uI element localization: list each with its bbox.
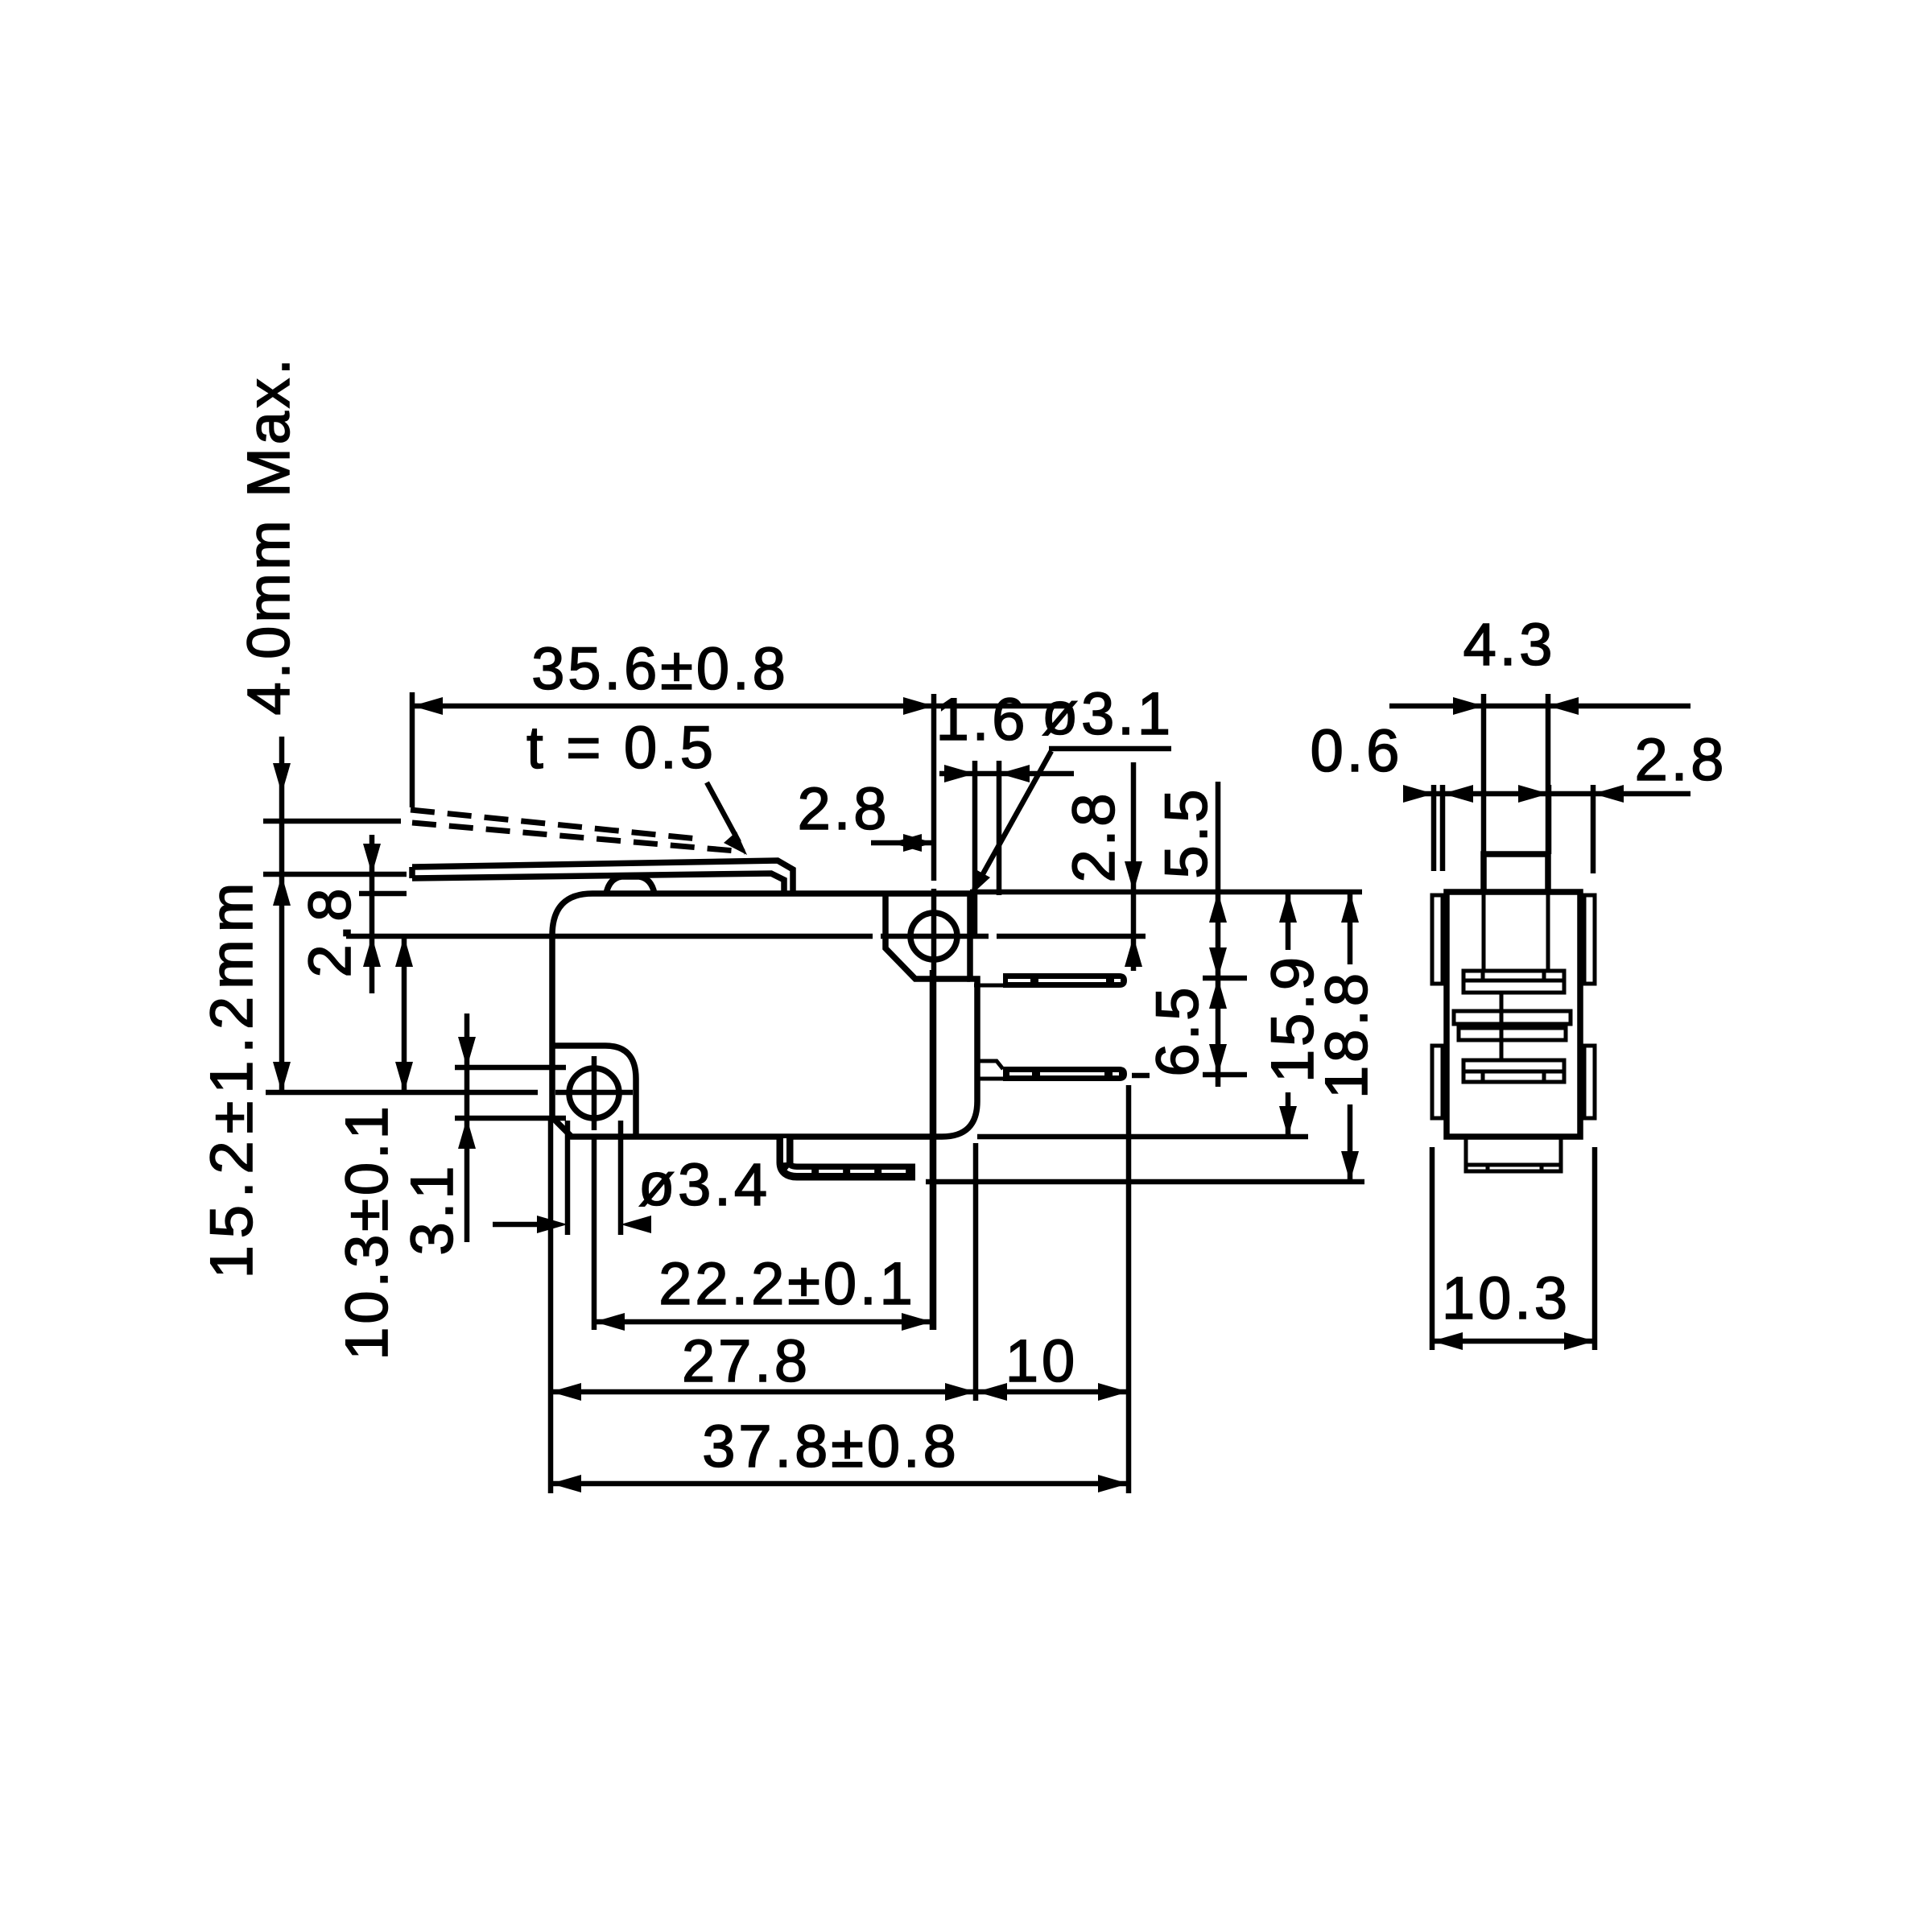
dim column 10.3±0.1: [402, 936, 407, 1092]
terminal NC (middle right): [977, 1061, 1003, 1069]
H2 vertical centerline: [931, 694, 937, 1330]
left dim column 2.8: [369, 835, 375, 993]
svg-text:6.5: 6.5: [1144, 985, 1211, 1077]
svg-text:37.8±0.8: 37.8±0.8: [702, 1413, 960, 1480]
svg-text:ø3.1: ø3.1: [1042, 680, 1174, 747]
H1 horizontal centerline: [266, 1090, 633, 1096]
H1 bottom tangent extension: [455, 1116, 566, 1121]
svg-text:4.0mm Max.: 4.0mm Max.: [235, 355, 302, 715]
dim column 3.1: [464, 1013, 470, 1242]
terminal NO (bottom, bent): [785, 1138, 915, 1172]
svg-text:2.8: 2.8: [798, 775, 890, 842]
svg-text:0.6: 0.6: [1311, 717, 1403, 784]
hinge dome on body top: [606, 877, 654, 894]
dim line 0.6 / 2.8 side: [1407, 791, 1690, 797]
svg-text:1.6: 1.6: [936, 686, 1029, 753]
svg-text:27.8: 27.8: [682, 1327, 811, 1394]
side view body box: [1447, 892, 1580, 1137]
side flange bar lower-left: [1432, 1046, 1443, 1118]
terminal COM (upper right): [1003, 973, 1127, 988]
body top extension tick (left): [359, 891, 407, 897]
mounting hole H1 (lower-left): [569, 1068, 619, 1118]
svg-text:35.6±0.8: 35.6±0.8: [531, 635, 789, 702]
svg-text:3.1: 3.1: [398, 1163, 465, 1256]
side terminal T3 edge-on: [1463, 1060, 1564, 1082]
side terminal T2 edge-on: [1454, 1011, 1571, 1024]
svg-text:10.3: 10.3: [1442, 1265, 1571, 1331]
svg-text:15.2±1.2mm: 15.2±1.2mm: [198, 876, 265, 1279]
mounting hole H2 (upper-right): [910, 913, 957, 960]
svg-text:ø3.4: ø3.4: [638, 1151, 770, 1218]
body top extension line (right): [970, 890, 1362, 895]
svg-text:18.8: 18.8: [1313, 970, 1380, 1099]
svg-text:2.8: 2.8: [1060, 791, 1127, 883]
svg-text:4.3: 4.3: [1463, 611, 1556, 678]
dim column 15.9: [1286, 892, 1291, 1137]
free position extension line: [263, 819, 401, 824]
dim column 5.5/6.5: [1216, 782, 1221, 1087]
dim column 2.8 right: [1131, 762, 1137, 971]
bottom terminal extension line (right): [926, 1179, 1364, 1185]
switch body outline: [552, 894, 977, 1137]
svg-text:2.8: 2.8: [296, 885, 363, 978]
svg-text:t = 0.5: t = 0.5: [526, 714, 716, 781]
side inner corner stubs: [1445, 897, 1582, 913]
hole boss top-right internal outline: [885, 895, 970, 979]
lever bottom extension tick: [263, 872, 407, 877]
side flange bar lower-right: [1584, 1046, 1595, 1118]
side view plunger: [1484, 854, 1548, 892]
H1 vertical centerline: [592, 1056, 597, 1330]
side terminal T4 bottom tab: [1466, 1137, 1561, 1171]
svg-text:10: 10: [1005, 1327, 1078, 1394]
side terminal T1 edge-on: [1463, 971, 1564, 993]
svg-text:10.3±0.1: 10.3±0.1: [333, 1103, 400, 1360]
H1 top tangent extension: [455, 1065, 566, 1071]
H2 horizontal centerline: [346, 934, 1146, 939]
side flange bar upper-right: [1584, 895, 1595, 984]
svg-text:5.5: 5.5: [1153, 786, 1220, 879]
body bottom extension line (right): [977, 1134, 1308, 1140]
left dim column 4.0/15.2: [279, 737, 285, 1092]
svg-text:22.2±0.1: 22.2±0.1: [658, 1250, 916, 1317]
hole pad bottom-left outline: [552, 1046, 636, 1135]
hinge lever (solid): [412, 861, 793, 892]
side flange bar upper-left: [1432, 895, 1443, 984]
svg-text:2.8: 2.8: [1635, 726, 1728, 793]
dim column 18.8: [1348, 892, 1353, 1182]
lever free position (dashed): [411, 810, 697, 839]
